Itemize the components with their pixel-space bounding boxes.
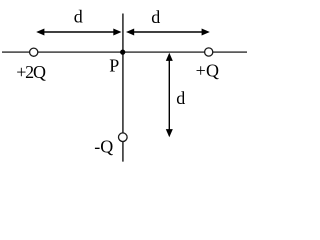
charge +2Q circle xyxy=(30,48,38,56)
svg-text:P: P xyxy=(109,55,119,75)
dimension arrow d right xyxy=(126,29,210,36)
dimension arrow d vertical xyxy=(166,53,173,138)
svg-text:d: d xyxy=(176,88,185,108)
charge -Q circle xyxy=(119,133,128,142)
svg-text:d: d xyxy=(151,7,160,27)
wire horizontal main line through charges xyxy=(2,51,247,53)
charge +Q circle xyxy=(205,48,213,56)
svg-text:d: d xyxy=(74,7,83,27)
svg-text:+2Q: +2Q xyxy=(16,62,46,82)
dimension arrow d left xyxy=(36,29,121,36)
svg-text:+Q: +Q xyxy=(196,61,220,81)
wire vertical main line through P xyxy=(122,14,124,162)
svg-text:-Q: -Q xyxy=(94,136,113,156)
node P dot xyxy=(120,50,125,55)
